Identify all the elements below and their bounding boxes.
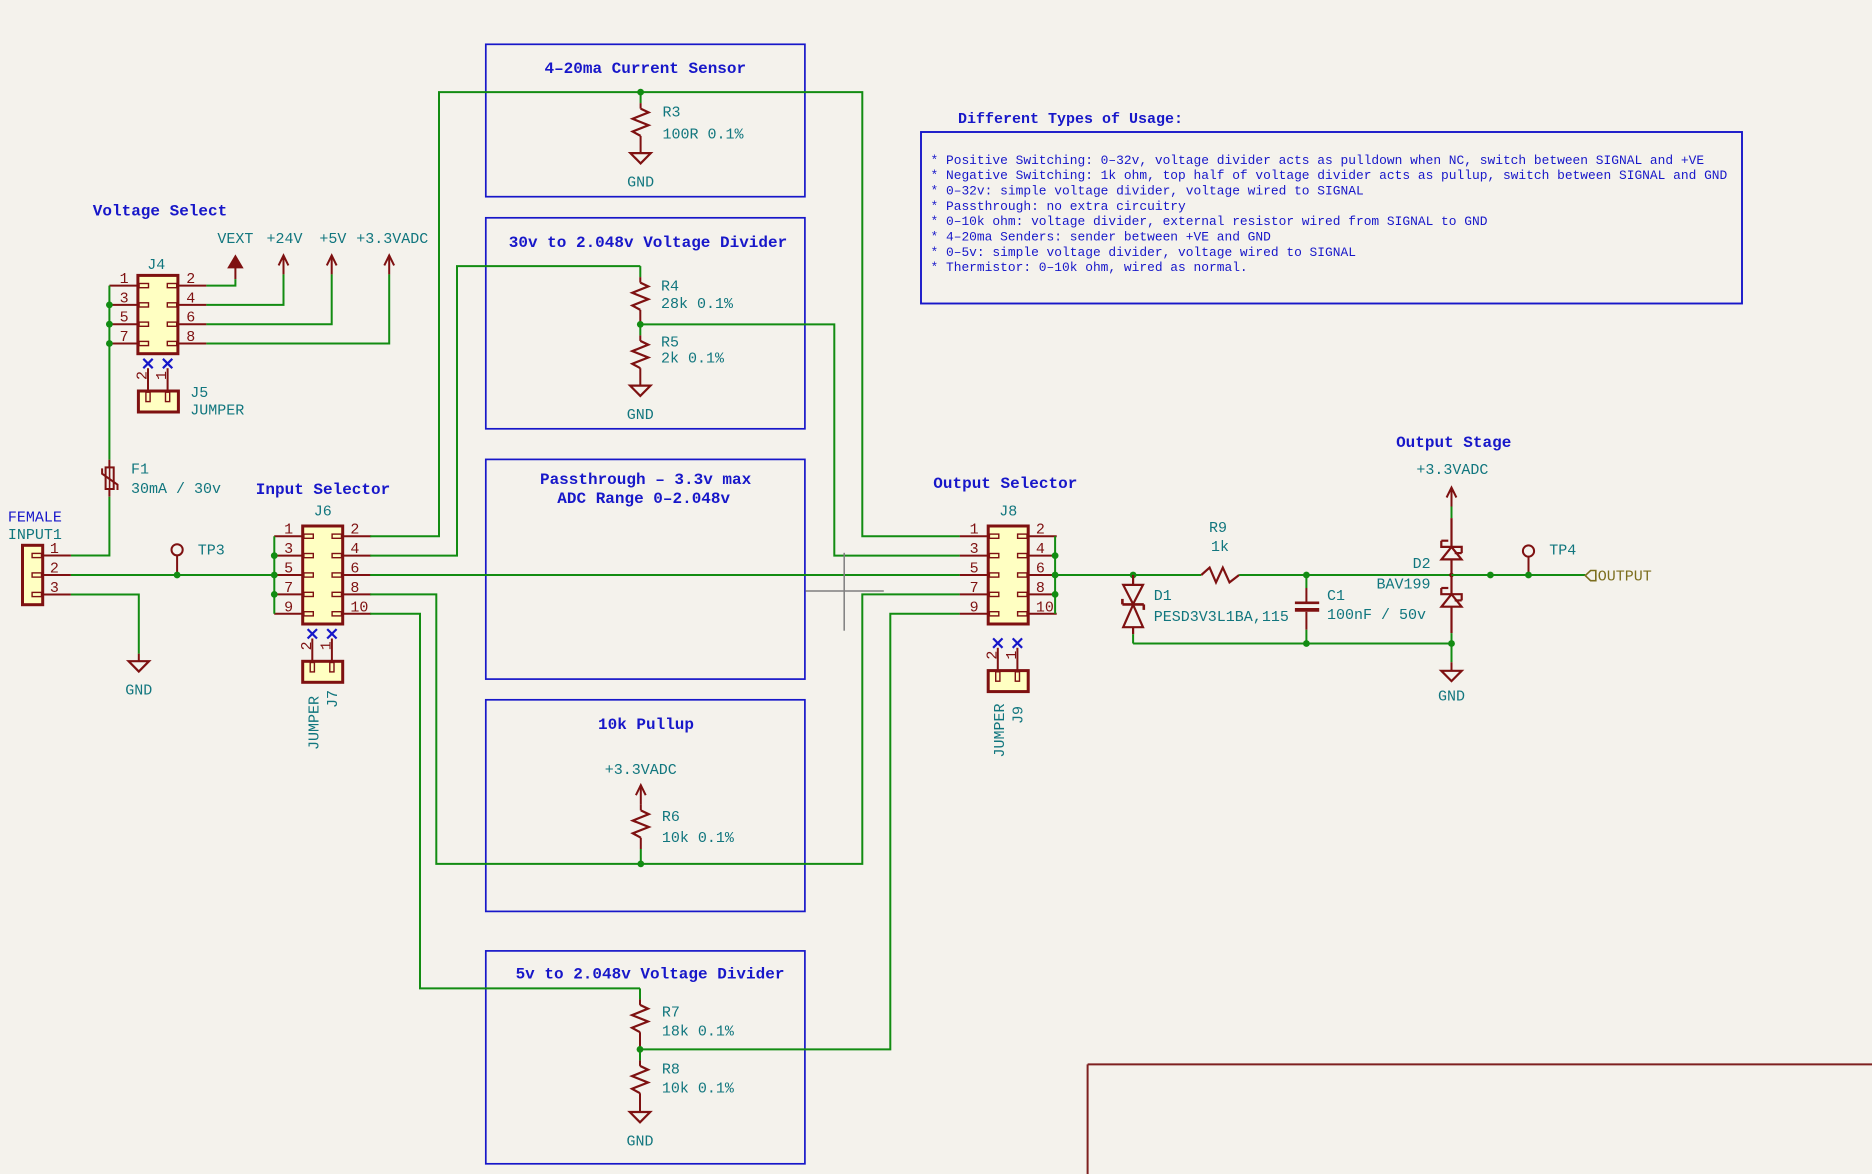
connector INPUT1 (female 3-pin): [23, 545, 43, 604]
wire J8.6 to R9: [1055, 574, 1201, 576]
graphic frame: 10k Pullup box: [486, 700, 805, 912]
svg-text:4: 4: [1036, 541, 1045, 558]
svg-text:R9: R9: [1209, 520, 1227, 537]
svg-text:2: 2: [1036, 522, 1045, 539]
svg-text:3: 3: [50, 580, 59, 597]
svg-text:GND: GND: [125, 683, 152, 700]
ground symbol (R8): [630, 1112, 650, 1122]
wire passthrough row J6.6 to J8.5: [370, 574, 960, 576]
ground symbol (output): [1451, 662, 1453, 671]
fuse F1: [108, 460, 110, 468]
svg-text:OUTPUT: OUTPUT: [1598, 569, 1652, 586]
svg-text:* Passthrough: no extra circui: * Passthrough: no extra circuitry: [931, 199, 1187, 214]
ground symbol (R3): [630, 153, 650, 163]
junction output row: [1487, 572, 1494, 579]
ground symbol (input): [138, 654, 140, 662]
junction D2 center (red): [1449, 573, 1454, 578]
resistor R6: [640, 804, 642, 810]
svg-text:* Negative Switching: 1k ohm,: * Negative Switching: 1k ohm, top half o…: [931, 168, 1728, 183]
wire 30v tap to J8.3: [640, 324, 960, 555]
svg-text:TP4: TP4: [1549, 543, 1576, 560]
wire D2 bottom to GND: [1451, 644, 1453, 663]
svg-text:8: 8: [186, 329, 195, 346]
resistor R7: [639, 988, 641, 999]
svg-text:100R 0.1%: 100R 0.1%: [663, 127, 745, 144]
wire bottom rail (D1-C1-D2): [1133, 643, 1451, 645]
svg-text:3: 3: [120, 290, 129, 307]
resistor R4: [639, 266, 641, 277]
svg-text:100nF / 50v: 100nF / 50v: [1327, 607, 1426, 624]
svg-text:2k 0.1%: 2k 0.1%: [661, 351, 725, 368]
svg-text:3: 3: [970, 541, 979, 558]
svg-text:6: 6: [186, 310, 195, 327]
svg-text:7: 7: [970, 580, 979, 597]
svg-text:30v to 2.048v Voltage Divider: 30v to 2.048v Voltage Divider: [509, 234, 787, 252]
junction J4.3: [106, 302, 113, 309]
svg-text:4–20ma Current Sensor: 4–20ma Current Sensor: [544, 60, 746, 78]
wire J6.2 to current-sensor net: [370, 92, 640, 536]
wire J6.8 to 10k pullup: [370, 594, 641, 864]
svg-text:9: 9: [284, 599, 293, 616]
svg-text:1: 1: [970, 522, 979, 539]
wire 5v tap to J8.9: [640, 614, 960, 1050]
svg-text:28k 0.1%: 28k 0.1%: [661, 296, 734, 313]
wire R9 to C1 to D2: [1239, 574, 1451, 576]
svg-text:J6: J6: [314, 504, 332, 521]
junction R3 top: [637, 89, 644, 96]
svg-text:30mA / 30v: 30mA / 30v: [131, 481, 221, 498]
svg-text:* Thermistor: 0–10k ohm, wired: * Thermistor: 0–10k ohm, wired as normal…: [931, 260, 1248, 275]
svg-text:2: 2: [135, 371, 152, 380]
svg-text:R8: R8: [662, 1061, 680, 1078]
wire to OUTPUT: [1452, 574, 1586, 576]
graphic frame: 30v to 2.048v Voltage Divider box: [486, 218, 805, 429]
svg-text:+5V: +5V: [319, 231, 346, 248]
svg-text:6: 6: [1036, 561, 1045, 578]
wire J8 right bus vertical: [1054, 536, 1056, 614]
svg-text:4: 4: [350, 541, 359, 558]
svg-text:10k Pullup: 10k Pullup: [598, 716, 694, 734]
svg-text:JUMPER: JUMPER: [307, 696, 324, 750]
svg-text:ADC Range 0–2.048v: ADC Range 0–2.048v: [557, 490, 730, 508]
svg-text:J9: J9: [1011, 706, 1028, 724]
junction J4.5: [106, 321, 113, 328]
connector J8: [988, 526, 1028, 624]
svg-text:7: 7: [284, 580, 293, 597]
graphic frame: 5v to 2.048v Voltage Divider box: [486, 951, 805, 1164]
svg-text:5: 5: [970, 561, 979, 578]
svg-text:D2: D2: [1413, 556, 1431, 573]
wire J6 left bus vertical: [273, 536, 275, 614]
junction J6.7: [271, 591, 278, 598]
graphic frame: Passthrough box: [486, 459, 805, 679]
junction J8.6: [1052, 572, 1059, 579]
junction TP3: [174, 572, 181, 579]
graphic frame: usage notes box: [921, 132, 1742, 304]
junction C1 bottom: [1303, 640, 1310, 647]
svg-text:2: 2: [350, 522, 359, 539]
junction R4/R5: [637, 321, 644, 328]
svg-text:J5: J5: [190, 385, 208, 402]
junction R6 bottom: [637, 861, 644, 868]
power symbol +5V arrow: [327, 255, 337, 265]
svg-text:+3.3VADC: +3.3VADC: [605, 762, 677, 779]
svg-text:R4: R4: [661, 279, 679, 296]
svg-text:7: 7: [120, 329, 129, 346]
svg-text:R5: R5: [661, 335, 679, 352]
connector J4: [138, 275, 178, 353]
junction J8.8: [1052, 591, 1059, 598]
svg-text:BAV199: BAV199: [1376, 577, 1430, 594]
svg-text:1: 1: [1004, 651, 1021, 660]
svg-text:* 0–5v: simple voltage divider: * 0–5v: simple voltage divider, voltage …: [931, 245, 1356, 260]
svg-text:1: 1: [154, 371, 171, 380]
svg-text:F1: F1: [131, 462, 149, 479]
wire F1 to input pin1: [71, 497, 110, 556]
svg-text:GND: GND: [627, 407, 654, 424]
resistor R8: [639, 1049, 641, 1060]
sheet border corner: [1088, 1063, 1872, 1065]
connector J5 (jumper): [143, 359, 152, 368]
wire J4.8 to +3.3VADC: [206, 274, 389, 343]
global label OUTPUT arrow: [1585, 571, 1596, 581]
svg-text:R3: R3: [663, 105, 681, 122]
svg-text:VEXT: VEXT: [217, 231, 253, 248]
svg-text:GND: GND: [626, 1134, 653, 1151]
svg-text:5: 5: [284, 561, 293, 578]
svg-text:J7: J7: [325, 690, 342, 708]
svg-text:10: 10: [1036, 599, 1054, 616]
junction TP4: [1525, 572, 1532, 579]
svg-text:2: 2: [299, 641, 316, 650]
junction J6.5: [271, 572, 278, 579]
wire J4 left bus vertical: [108, 286, 110, 460]
junction J6.3: [271, 552, 278, 559]
graphic frame: 4-20ma Current Sensor box: [486, 44, 805, 196]
svg-text:J4: J4: [147, 257, 165, 274]
svg-text:Input Selector: Input Selector: [256, 481, 390, 499]
power symbol +3.3VADC arrow (output): [1447, 488, 1457, 498]
svg-text:D1: D1: [1154, 588, 1172, 605]
svg-text:Different Types of Usage:: Different Types of Usage:: [958, 111, 1183, 128]
power symbol VEXT (filled arrow): [229, 256, 242, 267]
svg-text:9: 9: [970, 599, 979, 616]
connector J6: [303, 526, 343, 624]
junction C1 top: [1303, 572, 1310, 579]
wire J6.4 to 30v divider top: [370, 266, 640, 555]
connector J7 (jumper): [308, 629, 317, 638]
wire J4.2 to VEXT: [206, 279, 235, 286]
svg-text:Output Stage: Output Stage: [1396, 434, 1511, 452]
junction J8.4: [1052, 552, 1059, 559]
svg-text:+3.3VADC: +3.3VADC: [1416, 462, 1488, 479]
svg-text:C1: C1: [1327, 588, 1345, 605]
svg-text:R7: R7: [662, 1005, 680, 1022]
svg-text:* 0–10k ohm: voltage divider,: * 0–10k ohm: voltage divider, external r…: [931, 214, 1488, 229]
capacitor C1: [1305, 575, 1307, 588]
wire J4.4 to +24V: [206, 274, 283, 305]
svg-text:6: 6: [350, 561, 359, 578]
test point TP3: [172, 544, 183, 555]
svg-text:TP3: TP3: [198, 543, 225, 560]
svg-text:2: 2: [50, 561, 59, 578]
svg-text:+3.3VADC: +3.3VADC: [356, 231, 428, 248]
wire 10k pullup to J8.7: [641, 594, 960, 864]
connector J9 (jumper): [993, 638, 1002, 647]
junction J4.7: [106, 340, 113, 347]
svg-text:8: 8: [1036, 580, 1045, 597]
svg-text:1: 1: [284, 522, 293, 539]
resistor R9: [1201, 568, 1239, 583]
wire current-sensor net to J8.1: [641, 92, 960, 536]
svg-text:* Positive Switching: 0–32v, v: * Positive Switching: 0–32v, voltage div…: [931, 153, 1705, 168]
svg-text:JUMPER: JUMPER: [190, 402, 244, 419]
svg-text:GND: GND: [1438, 689, 1465, 706]
wire main input row: [71, 574, 274, 576]
svg-text:Voltage Select: Voltage Select: [93, 203, 227, 221]
svg-text:4: 4: [186, 290, 195, 307]
power symbol +3.3VADC arrow: [384, 255, 394, 265]
test point TP4: [1523, 545, 1534, 556]
svg-text:10k 0.1%: 10k 0.1%: [662, 830, 735, 847]
ground symbol (R5): [630, 386, 650, 396]
wire +3.3VADC to D2: [1451, 507, 1453, 519]
svg-text:1k: 1k: [1211, 539, 1229, 556]
svg-text:Output Selector: Output Selector: [933, 475, 1077, 493]
junction R7/R8: [637, 1046, 644, 1053]
svg-text:GND: GND: [627, 175, 654, 192]
svg-text:R6: R6: [662, 809, 680, 826]
svg-text:3: 3: [284, 541, 293, 558]
svg-text:1: 1: [120, 271, 129, 288]
wire input pin3 to GND: [71, 595, 139, 654]
resistor R3: [640, 92, 642, 103]
svg-text:FEMALE: FEMALE: [8, 510, 62, 527]
svg-text:Passthrough – 3.3v max: Passthrough – 3.3v max: [540, 471, 752, 489]
junction D2 bottom: [1448, 640, 1455, 647]
diode D1 (PESD TVS): [1132, 575, 1134, 585]
svg-text:2: 2: [186, 271, 195, 288]
svg-text:5v to 2.048v Voltage Divider: 5v to 2.048v Voltage Divider: [516, 966, 785, 984]
power symbol +3.3VADC arrow (pullup): [636, 785, 646, 795]
wire J6.10 to 5v divider top: [370, 614, 640, 989]
svg-text:8: 8: [350, 580, 359, 597]
svg-text:1: 1: [50, 541, 59, 558]
svg-text:J8: J8: [999, 504, 1017, 521]
svg-text:1: 1: [318, 641, 335, 650]
svg-text:+24V: +24V: [266, 231, 302, 248]
svg-text:18k 0.1%: 18k 0.1%: [662, 1024, 735, 1041]
svg-text:JUMPER: JUMPER: [992, 703, 1009, 757]
svg-text:* 4–20ma Senders: sender betwe: * 4–20ma Senders: sender between +VE and…: [931, 230, 1272, 245]
wire J4.6 to +5V: [206, 274, 331, 324]
svg-text:5: 5: [120, 310, 129, 327]
power symbol +24V arrow: [279, 255, 289, 265]
svg-text:10: 10: [350, 599, 368, 616]
svg-text:PESD3V3L1BA,115: PESD3V3L1BA,115: [1154, 609, 1289, 626]
cursor crosshair: [843, 553, 845, 631]
svg-text:* 0–32v: simple voltage divide: * 0–32v: simple voltage divider, voltage…: [931, 184, 1364, 199]
diode D2 (BAV199): [1450, 518, 1452, 547]
junction D1 top: [1130, 572, 1137, 579]
svg-text:10k 0.1%: 10k 0.1%: [662, 1080, 735, 1097]
svg-text:2: 2: [984, 651, 1001, 660]
resistor R5: [639, 324, 641, 335]
